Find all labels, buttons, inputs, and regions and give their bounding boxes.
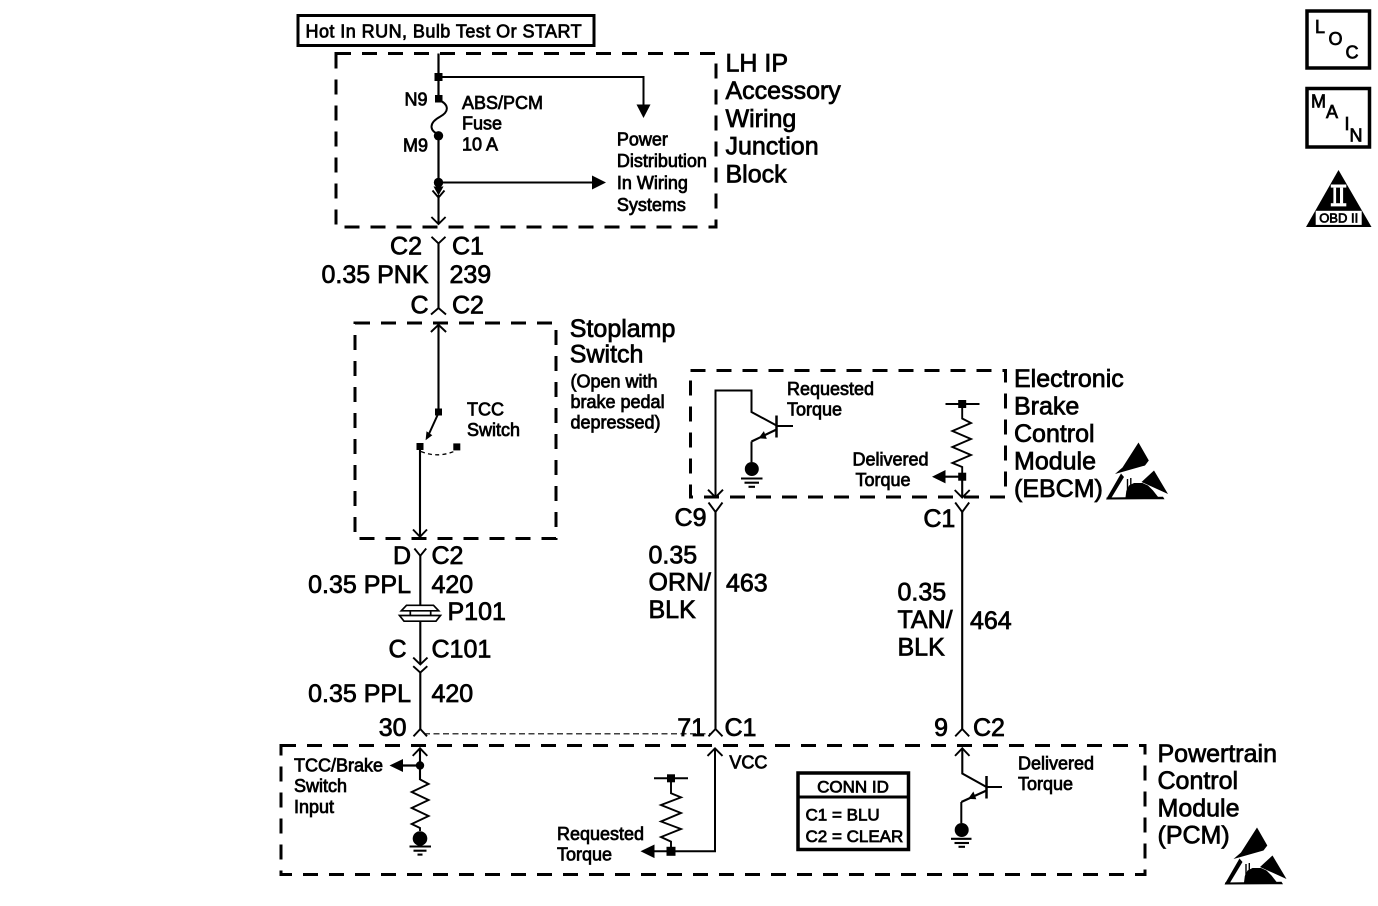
svg-text:0.35 PPL: 0.35 PPL (308, 571, 411, 599)
svg-text:Control: Control (1014, 420, 1095, 448)
wire pin30 to pull-up node (419, 748, 421, 780)
svg-text:brake pedal: brake pedal (571, 392, 665, 412)
TCC switch: lower contact (417, 443, 424, 450)
wire to C1 connector (437, 195, 439, 223)
svg-text:A: A (1326, 102, 1338, 122)
svg-text:Fuse: Fuse (462, 114, 502, 134)
thin dashed connector body line from pin 30 to pin 71 (424, 733, 710, 735)
chassis ground ball (PCM transistor) (951, 823, 972, 847)
svg-text:0.35 PPL: 0.35 PPL (308, 680, 411, 708)
connector splay D/C2 (below stoplamp box) (414, 549, 426, 556)
svg-text:C2: C2 (452, 292, 484, 320)
svg-text:71: 71 (677, 714, 705, 742)
svg-text:239: 239 (450, 261, 492, 289)
entry chevron inside stoplamp box (431, 325, 446, 332)
VCC wire down and left (655, 748, 716, 851)
svg-text:10 A: 10 A (462, 134, 498, 154)
wire to power distribution (down arrow) (439, 77, 651, 118)
svg-text:L: L (1315, 17, 1325, 37)
svg-text:C1: C1 (452, 233, 484, 261)
TCC switch: blade with arrow (426, 413, 439, 440)
svg-text:VCC: VCC (729, 753, 767, 773)
svg-text:C2: C2 (973, 714, 1005, 742)
chassis ground ball (PCM input) (410, 831, 432, 854)
wire from switch to exit (419, 450, 421, 537)
wire 420 PPL (lower) (419, 673, 421, 729)
svg-text:C1: C1 (923, 505, 955, 533)
wire from feed into junction block (437, 54, 439, 96)
svg-text:C: C (410, 292, 428, 320)
TCC switch: upper contact (435, 409, 442, 416)
svg-text:Input: Input (294, 797, 334, 817)
svg-text:Module: Module (1014, 448, 1096, 476)
svg-text:O: O (1329, 29, 1343, 49)
svg-text:Systems: Systems (617, 195, 686, 215)
delivered torque arrow (EBCM) (932, 470, 962, 483)
svg-text:TAN/: TAN/ (898, 606, 953, 634)
svg-text:depressed): depressed) (571, 413, 661, 433)
MAIN reference box (1307, 89, 1370, 148)
svg-text:Module: Module (1158, 794, 1240, 822)
svg-text:BLK: BLK (898, 634, 946, 662)
note: (Open with brake pedal depressed) (571, 372, 665, 433)
Electronic Brake Control Module dashed box (691, 371, 1006, 498)
svg-text:463: 463 (726, 570, 768, 598)
feed label box "Hot In RUN, Bulb Test Or START" (298, 16, 594, 46)
svg-text:Torque: Torque (787, 399, 842, 419)
LOC reference box (1307, 11, 1370, 68)
svg-text:Junction: Junction (726, 133, 819, 161)
TCC switch: open contact (right) (453, 443, 460, 450)
svg-text:(EBCM): (EBCM) (1014, 475, 1103, 503)
ESD warning symbol (EBCM) (1106, 443, 1168, 500)
svg-text:Torque: Torque (856, 470, 911, 490)
svg-text:Wiring: Wiring (726, 105, 797, 133)
inline connector C101: male chevron (413, 658, 427, 665)
svg-text:C1 = BLU: C1 = BLU (806, 806, 880, 825)
wire 420 PPL (upper) (419, 556, 421, 605)
svg-text:Powertrain: Powertrain (1158, 740, 1278, 768)
requested torque arrow (PCM) (641, 845, 655, 859)
label Delivered Torque (EBCM) (853, 450, 929, 491)
svg-text:Delivered: Delivered (853, 450, 929, 470)
svg-text:Torque: Torque (557, 845, 612, 865)
svg-text:(PCM): (PCM) (1158, 822, 1230, 850)
label TCC Switch (467, 400, 520, 441)
wire below fuse (437, 140, 439, 183)
svg-text:9: 9 (934, 714, 948, 742)
svg-text:(Open with: (Open with (571, 372, 658, 392)
svg-text:Block: Block (726, 160, 788, 188)
svg-text:0.35: 0.35 (898, 579, 947, 607)
svg-text:LH IP: LH IP (726, 50, 789, 78)
svg-text:Switch: Switch (294, 776, 347, 796)
svg-text:Torque: Torque (1018, 774, 1073, 794)
connector splay C1 (EBCM right) (955, 503, 969, 513)
svg-text:ORN/: ORN/ (649, 569, 712, 597)
svg-text:420: 420 (432, 571, 474, 599)
svg-text:M9: M9 (403, 136, 428, 156)
svg-text:C1: C1 (725, 714, 757, 742)
connector splay C9 (709, 503, 723, 513)
grommet P101 (400, 605, 441, 621)
LH IP Accessory Wiring Junction Block (dashed box) (336, 54, 716, 228)
connector splay at PCM pin 71 (709, 729, 723, 736)
svg-text:D: D (393, 542, 411, 570)
wire 463 ORN/BLK (714, 512, 716, 729)
chassis ground ball (EBCM) (741, 462, 763, 487)
wire to switch contact (437, 325, 439, 412)
svg-text:30: 30 (379, 714, 407, 742)
PCM VCC entry chevron (708, 748, 723, 756)
OBD II symbol (1306, 170, 1372, 227)
splice node (dot) below fuse (434, 178, 443, 187)
label: Power Distribution In Wiring Systems (617, 129, 707, 214)
svg-text:Distribution: Distribution (617, 151, 707, 171)
svg-text:ABS/PCM: ABS/PCM (462, 93, 543, 113)
svg-text:BLK: BLK (649, 596, 697, 624)
svg-text:Electronic: Electronic (1014, 365, 1124, 393)
PCM input resistor (412, 779, 429, 831)
svg-text:Control: Control (1158, 767, 1239, 795)
svg-text:Stoplamp: Stoplamp (570, 315, 676, 343)
ESD warning symbol (PCM) (1225, 828, 1287, 885)
svg-text:M: M (1311, 91, 1326, 111)
inline connector C101: female splay (413, 666, 427, 672)
wire label 0.35 ORN/ BLK (649, 542, 712, 625)
wire 239 PNK (437, 243, 439, 308)
PCM requested torque resistor (661, 782, 681, 847)
svg-text:0.35: 0.35 (649, 542, 698, 570)
svg-text:0.35 PNK: 0.35 PNK (321, 261, 428, 289)
label TCC/Brake Switch Input (294, 755, 383, 817)
svg-text:C9: C9 (675, 504, 707, 532)
node dot (TCC/brake input tap) (416, 761, 424, 769)
label Requested Torque (PCM) (557, 824, 644, 865)
svg-text:420: 420 (432, 680, 474, 708)
PCM pin9 entry chevron (955, 748, 970, 756)
svg-text:C2: C2 (390, 233, 422, 261)
junction square (requested torque node) (667, 847, 676, 856)
CONN ID table (798, 773, 909, 850)
exit chevron inside stoplamp box (413, 530, 427, 537)
connector splay at PCM pin 9 (955, 729, 969, 736)
arrow to TCC/Brake Switch Input (390, 759, 421, 772)
svg-text:TCC: TCC (467, 400, 504, 420)
EBCM C1 exit wire + chevron (955, 480, 970, 498)
connector splay at PCM pin 30 (414, 729, 428, 736)
svg-text:C: C (388, 636, 406, 664)
module name: Electronic Brake Control Module (EBCM) (1014, 365, 1124, 503)
svg-text:Switch: Switch (467, 420, 520, 440)
svg-text:Requested: Requested (787, 379, 874, 399)
fuse value label ABS/PCM Fuse 10 A (462, 93, 543, 154)
out-arrow symbol below splice (433, 187, 445, 198)
svg-text:TCC/Brake: TCC/Brake (294, 755, 383, 775)
splice node (square) at top of fuse feed (435, 73, 443, 81)
svg-text:OBD II: OBD II (1319, 211, 1358, 226)
EBCM output driver transistor (requested torque) (716, 391, 794, 498)
connector splay C2/C1 (below border) (432, 237, 446, 244)
svg-text:C: C (1346, 43, 1359, 63)
connector splay at stoplamp switch entry (431, 308, 446, 315)
wire label 0.35 TAN/ BLK (898, 579, 953, 662)
svg-text:C2: C2 (432, 542, 464, 570)
internal connection T-bar (654, 774, 688, 782)
svg-text:N9: N9 (404, 90, 427, 110)
svg-text:Switch: Switch (570, 341, 644, 369)
Powertrain Control Module dashed box (281, 746, 1145, 875)
PCM pin30 entry chevron (413, 748, 428, 756)
wire to power distribution (right arrow) (439, 176, 607, 190)
module name: Powertrain Control Module (PCM) (1158, 740, 1278, 850)
label Delivered Torque (PCM) (1018, 754, 1094, 795)
svg-text:CONN ID: CONN ID (817, 778, 889, 797)
svg-text:Accessory: Accessory (726, 77, 842, 105)
svg-text:P101: P101 (448, 598, 506, 626)
svg-text:464: 464 (970, 607, 1012, 635)
label Requested Torque (EBCM) (787, 379, 874, 420)
Stoplamp Switch dashed box (355, 323, 556, 539)
fuse ABS/PCM 10 A (S-curve with terminals N9, M9) (432, 95, 447, 141)
svg-text:C101: C101 (432, 636, 492, 664)
svg-text:Requested: Requested (557, 824, 644, 844)
svg-text:Hot In RUN, Bulb Test Or START: Hot In RUN, Bulb Test Or START (306, 22, 583, 42)
wire 464 TAN/BLK (961, 512, 963, 729)
svg-text:Power: Power (617, 129, 668, 149)
svg-text:Brake: Brake (1014, 393, 1079, 421)
svg-text:In Wiring: In Wiring (617, 173, 688, 193)
EBCM delivered torque resistor (946, 400, 980, 481)
EBCM C9 exit chevron (708, 490, 723, 498)
TCC switch: dashed travel arc (421, 451, 456, 455)
svg-text:Delivered: Delivered (1018, 754, 1094, 774)
svg-text:N: N (1350, 126, 1363, 146)
connector chevron (inside LH IP box) (431, 217, 445, 224)
PCM delivered torque transistor (961, 748, 1002, 823)
svg-text:C2 = CLEAR: C2 = CLEAR (806, 827, 904, 846)
wire from grommet to C101 (419, 621, 421, 664)
